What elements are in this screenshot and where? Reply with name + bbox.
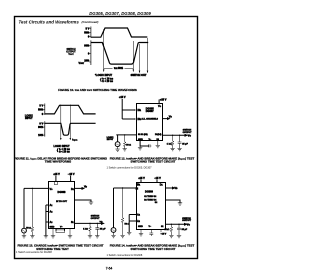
resistor RL 13 bbox=[89, 223, 92, 235]
svg-text:+15 V: +15 V bbox=[119, 96, 126, 99]
wire +15V drop left bbox=[55, 176, 57, 182]
wire output bbox=[163, 134, 185, 136]
svg-text:S2 THRU S4: S2 THRU S4 bbox=[144, 195, 156, 198]
section title bbox=[19, 19, 99, 24]
node switch-output axis bbox=[90, 40, 92, 65]
wire +15V right drop bbox=[158, 100, 160, 104]
wire input top f14 bbox=[114, 187, 137, 189]
wire pulse input bbox=[116, 134, 136, 136]
svg-text:FIGURE 10. tON AND tOFF SWITC: FIGURE 10. tON AND tOFF SWITCHING TIME W… bbox=[58, 88, 137, 92]
capacitor CL bbox=[178, 135, 182, 148]
junction out r bbox=[89, 223, 90, 224]
footnote figure 13 bbox=[16, 251, 52, 254]
svg-text:50 Ω: 50 Ω bbox=[126, 145, 131, 147]
svg-text:topen: topen bbox=[72, 139, 77, 142]
svg-text:VOUT: VOUT bbox=[79, 62, 85, 65]
svg-text:TIME WAVEFORMS: TIME WAVEFORMS bbox=[45, 160, 72, 164]
svg-text:S1: S1 bbox=[161, 226, 163, 228]
wire -15V drop b bbox=[156, 180, 158, 182]
svg-text:DG309: DG309 bbox=[145, 190, 154, 193]
svg-text:SWITCHING TIME TEST CIRCUIT: SWITCHING TIME TEST CIRCUIT bbox=[131, 160, 176, 164]
pulse generator circle bbox=[117, 135, 119, 142]
svg-text:10%: 10% bbox=[84, 60, 90, 63]
capacitor bottom f14 bbox=[149, 233, 153, 236]
svg-text:IN TO OUT: IN TO OUT bbox=[56, 201, 67, 203]
page number bbox=[106, 267, 113, 271]
junction out c f14 bbox=[178, 224, 179, 225]
svg-text:3 V: 3 V bbox=[86, 28, 90, 31]
svg-text:GND: GND bbox=[138, 139, 143, 141]
wire bottom pin V- bbox=[56, 228, 65, 230]
wire +15V left drop bbox=[122, 99, 134, 119]
wire pulse gen drop bbox=[23, 188, 25, 228]
svg-text:1 Switch connections for DG305: 1 Switch connections for DG305, DG307 bbox=[107, 166, 153, 169]
svg-text:90%: 90% bbox=[84, 45, 90, 48]
wire bottom pins f14 bbox=[141, 230, 161, 234]
svg-text:D2 THRU D4: D2 THRU D4 bbox=[144, 198, 156, 201]
junction dot input bus bbox=[32, 188, 33, 189]
svg-text:tON 50%: tON 50% bbox=[114, 67, 124, 70]
wire right pin stub bbox=[163, 118, 169, 120]
IC U1 box bbox=[137, 104, 163, 141]
svg-text:1 kΩ: 1 kΩ bbox=[167, 144, 172, 146]
pulse generator circle 2 bbox=[22, 228, 27, 233]
wire right to ground f14 bbox=[166, 200, 180, 203]
ground bus f14 bbox=[127, 232, 131, 234]
wire pulse drop f14 bbox=[113, 188, 115, 228]
node measurement line t_on right bbox=[132, 41, 134, 72]
wire switch output trace bbox=[91, 43, 148, 65]
ground R50 bbox=[30, 236, 34, 238]
wire fig11 output trace bbox=[45, 123, 96, 135]
svg-text:−15 V: −15 V bbox=[161, 234, 167, 236]
bus A pins bbox=[46, 205, 49, 236]
svg-text:D2: D2 bbox=[157, 139, 160, 141]
node fig11 measure line right bbox=[69, 105, 71, 140]
svg-text:ALL CHANNELS: ALL CHANNELS bbox=[141, 118, 158, 121]
svg-text:DG305, DG307, DG308, DG309: DG305, DG307, DG308, DG309 bbox=[89, 11, 151, 16]
wire t_on dimension arrows bbox=[104, 67, 134, 69]
wire bottom pin grounds bbox=[53, 228, 70, 235]
ground CL13 bbox=[95, 236, 99, 238]
caption figure 10 bbox=[58, 88, 137, 92]
svg-text:50%: 50% bbox=[38, 108, 44, 111]
svg-text:OUTPUT: OUTPUT bbox=[91, 218, 100, 220]
svg-text:−15 V: −15 V bbox=[154, 177, 161, 180]
label switch output block left bbox=[66, 49, 76, 56]
svg-text:1 kΩ: 1 kΩ bbox=[164, 229, 169, 231]
IC U3 box bbox=[137, 183, 166, 230]
junction dot input bbox=[124, 134, 125, 135]
svg-text:INPUT: INPUT bbox=[25, 117, 33, 120]
ground RL bbox=[170, 149, 174, 151]
svg-text:50%: 50% bbox=[84, 31, 90, 34]
ground RL13 bbox=[88, 236, 92, 238]
svg-text:V+: V+ bbox=[50, 188, 54, 191]
svg-text:IN: IN bbox=[136, 188, 139, 191]
capacitor CL 13 bbox=[95, 223, 99, 235]
ground right f14 bbox=[178, 203, 182, 205]
svg-text:1 Switch connections for DG308: 1 Switch connections for DG308 bbox=[107, 254, 143, 257]
caption figure 11 bbox=[14, 156, 108, 163]
caption figure 14 bbox=[110, 244, 195, 251]
node measurement line switch-out a bbox=[139, 44, 141, 73]
ground RL f14 bbox=[169, 235, 173, 237]
svg-text:D1(D4): D1(D4) bbox=[155, 133, 162, 136]
svg-text:A3: A3 bbox=[50, 221, 53, 224]
junction dot out 1 bbox=[172, 135, 173, 136]
svg-text:+15 V: +15 V bbox=[160, 98, 167, 101]
svg-text:10%: 10% bbox=[38, 134, 44, 137]
caption figure 12 bbox=[110, 156, 195, 163]
svg-text:1 kΩ: 1 kΩ bbox=[83, 229, 88, 231]
svg-text:V+: V+ bbox=[158, 105, 162, 108]
footnote figure 12 bbox=[107, 166, 153, 169]
capacitor bypass box bbox=[56, 230, 65, 233]
svg-text:90%: 90% bbox=[38, 126, 44, 129]
resistor R source bbox=[123, 135, 126, 149]
page border frame bbox=[15, 17, 198, 259]
resistor RL f14 bbox=[170, 224, 173, 235]
wire right pin to ground bbox=[75, 200, 91, 202]
ground 50 f14 bbox=[120, 235, 124, 237]
ground pulse 3 bbox=[111, 232, 115, 237]
svg-text:7-64: 7-64 bbox=[106, 267, 113, 271]
svg-text:(Continued): (Continued) bbox=[82, 20, 99, 24]
svg-text:tf < 20 ns: tf < 20 ns bbox=[59, 150, 70, 153]
svg-text:+15 V: +15 V bbox=[138, 177, 145, 180]
capacitor CL f14 bbox=[177, 224, 181, 235]
wire right pin D top bbox=[75, 188, 84, 190]
wire output f14 bbox=[166, 224, 187, 226]
svg-text:3 V: 3 V bbox=[39, 104, 43, 107]
footnote figure 14 bbox=[107, 254, 143, 257]
svg-text:S1: S1 bbox=[71, 221, 74, 224]
svg-text:SWITCHING TIME TEST CIRCUIT: SWITCHING TIME TEST CIRCUIT bbox=[131, 247, 176, 251]
svg-text:Test Circuits and Waveforms: Test Circuits and Waveforms bbox=[19, 19, 80, 24]
ground CL f14 bbox=[177, 235, 181, 237]
svg-text:50 Ω: 50 Ω bbox=[26, 227, 31, 229]
wire logic input trace bbox=[91, 28, 147, 37]
svg-text:+15 V: +15 V bbox=[53, 173, 60, 176]
IC U2 box bbox=[49, 182, 75, 229]
junction out c bbox=[97, 223, 98, 224]
junction out r f14 bbox=[171, 224, 172, 225]
svg-text:35 pF: 35 pF bbox=[100, 229, 106, 231]
node measurement line switch-out b bbox=[147, 38, 149, 73]
svg-text:S1 S2 (S4): S1 S2 (S4) bbox=[138, 133, 148, 136]
svg-text:A3: A3 bbox=[137, 220, 140, 223]
svg-text:IN1: IN1 bbox=[137, 184, 141, 187]
ground pulse gen bbox=[115, 147, 119, 152]
ground bottom pin a bbox=[51, 236, 55, 238]
node measurement arrowheads bbox=[103, 70, 148, 73]
capacitor C bypass bbox=[148, 144, 150, 147]
svg-text:INPUT: INPUT bbox=[107, 139, 114, 141]
node fig11 measure arrowheads bbox=[60, 138, 71, 140]
wire fig11 input trace bbox=[45, 105, 96, 114]
ground bottom a f14 bbox=[139, 234, 143, 236]
svg-text:50 Ω: 50 Ω bbox=[125, 224, 130, 226]
svg-text:A2: A2 bbox=[137, 214, 140, 217]
node fig11 bottom axis bbox=[44, 121, 46, 136]
pad square V+ bbox=[54, 182, 57, 185]
resistor RL bbox=[171, 135, 174, 148]
resistor R 50 bbox=[31, 188, 34, 235]
junction dot out 2 bbox=[179, 135, 180, 136]
node logic-input axis bbox=[90, 27, 92, 38]
node fig11 top axis bbox=[44, 104, 46, 115]
svg-text:DG308: DG308 bbox=[58, 191, 67, 194]
wire right pin top f14 bbox=[166, 187, 174, 189]
ground pulse gen 2 bbox=[22, 233, 26, 238]
svg-text:A2: A2 bbox=[50, 211, 53, 214]
bus A f14 bbox=[129, 215, 136, 233]
caption figure 13 bbox=[17, 244, 103, 251]
svg-text:tf < 20 ns: tf < 20 ns bbox=[102, 80, 113, 83]
resistor 50 f14 bbox=[121, 188, 124, 235]
svg-text:SWITCH OUT: SWITCH OUT bbox=[131, 74, 147, 77]
svg-text:DG307: DG307 bbox=[146, 110, 155, 113]
wire +15V drop right bbox=[70, 176, 72, 182]
wire input top bbox=[24, 187, 49, 189]
wire IC bottom pin 1 bbox=[140, 141, 149, 146]
svg-text:GND: GND bbox=[50, 226, 55, 228]
node measurement line t_on left bbox=[103, 29, 105, 72]
node fig11 measure line left bbox=[60, 105, 62, 140]
wire +15V drop a bbox=[140, 180, 142, 182]
svg-text:GND: GND bbox=[138, 226, 143, 228]
svg-text:A1: A1 bbox=[50, 204, 53, 207]
svg-text:OUTPUT: OUTPUT bbox=[182, 220, 191, 222]
svg-text:−15 V: −15 V bbox=[68, 173, 75, 176]
ground resistor bbox=[123, 149, 127, 151]
ground bottom pin b bbox=[68, 236, 72, 238]
junction input f14 bbox=[122, 187, 123, 188]
ground bus bbox=[44, 236, 48, 238]
pulse generator circle 3 bbox=[111, 228, 116, 233]
svg-text:VOUT: VOUT bbox=[68, 54, 74, 56]
header part number text bbox=[89, 11, 151, 16]
wire output fig13 bbox=[75, 223, 104, 225]
svg-text:D1: D1 bbox=[71, 188, 74, 191]
svg-text:IN1: IN1 bbox=[138, 109, 142, 112]
svg-text:D1: D1 bbox=[160, 183, 163, 186]
svg-text:35 pF: 35 pF bbox=[182, 229, 188, 231]
ground right mid bbox=[89, 202, 93, 204]
svg-text:1 Switch connections for DG308: 1 Switch connections for DG308 bbox=[16, 251, 52, 254]
ground bottom 2 bbox=[156, 141, 160, 148]
ground bottom 1 bbox=[138, 146, 142, 150]
ground CL bbox=[177, 149, 181, 151]
svg-text:35 pF: 35 pF bbox=[182, 144, 188, 146]
